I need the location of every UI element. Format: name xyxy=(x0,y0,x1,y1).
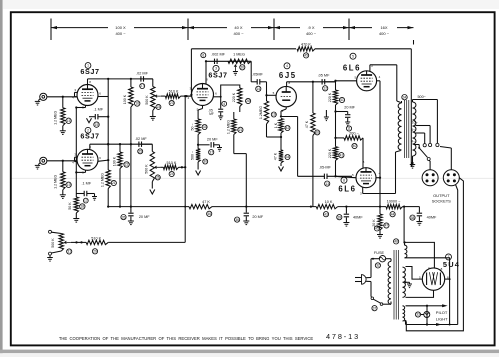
svg-text:THE COOPERATION OF THE MAN: THE COOPERATION OF THE MANUFACTURER OF T… xyxy=(59,336,314,341)
gain dimension lines 100X/40X/.9X/16X xyxy=(51,19,414,45)
capacitor 20 MF cathode V3 xyxy=(198,137,222,154)
svg-text:500 ~: 500 ~ xyxy=(190,151,194,160)
resistor 510 K ch2 xyxy=(160,161,186,177)
svg-text:27: 27 xyxy=(140,84,144,88)
potentiometer 500 K input 3 xyxy=(47,230,72,261)
resistor 220 K grid V6 xyxy=(328,138,344,176)
svg-text:1 MEG: 1 MEG xyxy=(233,53,245,57)
svg-text:470 K: 470 K xyxy=(301,43,311,47)
svg-text:OUTPUT: OUTPUT xyxy=(433,193,450,198)
resistor 20 K bus xyxy=(372,207,389,239)
svg-text:400 ~: 400 ~ xyxy=(233,31,244,36)
svg-text:6: 6 xyxy=(202,53,204,57)
resistor 1.2 MEG V2 plate xyxy=(101,170,117,207)
svg-text:8: 8 xyxy=(89,80,91,84)
svg-text:40MF: 40MF xyxy=(427,216,437,220)
svg-text:2: 2 xyxy=(87,129,89,133)
svg-text:8~: 8~ xyxy=(411,128,415,132)
secondary taps xyxy=(410,95,439,168)
svg-text:400 ~: 400 ~ xyxy=(306,31,317,36)
svg-text:5U4: 5U4 xyxy=(443,260,460,269)
svg-text:41: 41 xyxy=(340,98,344,102)
capacitor .02 MF ch2 xyxy=(135,137,152,154)
capacitor .05 MF c1 xyxy=(252,73,266,92)
svg-text:24: 24 xyxy=(170,172,174,176)
tube V7 5U4 xyxy=(419,254,460,290)
svg-text:1.2 MEG: 1.2 MEG xyxy=(53,111,57,125)
resistor 1.2 MEG input 2 xyxy=(53,161,71,199)
input jack J2 xyxy=(35,157,77,169)
rectifier output wire xyxy=(0,0,1,1)
resistor 1.2 MEG input 1 xyxy=(53,97,71,135)
capacitor 40MF bus 1 xyxy=(337,207,364,227)
svg-text:50 K: 50 K xyxy=(68,202,72,210)
svg-text:33: 33 xyxy=(416,313,420,317)
power transformer T2 xyxy=(388,239,407,321)
svg-text:16: 16 xyxy=(315,131,319,135)
phase inverter tap xyxy=(281,117,324,177)
resistor 220 K screen V3 xyxy=(220,85,251,112)
V2 plate top wire / row2 xyxy=(90,143,153,149)
tube V5 6L6 xyxy=(343,53,381,91)
tube V2 6SJ7 xyxy=(72,127,101,174)
potentiometer 500 K ch2 xyxy=(145,144,161,194)
potentiometer 500 K ch1 xyxy=(145,79,161,120)
ground stub near 6J5 xyxy=(324,110,329,121)
capacitor 20 MF bus 2 xyxy=(235,207,264,225)
V3 cathode network xyxy=(190,106,207,176)
V6 grid wire xyxy=(336,176,357,177)
svg-text:32: 32 xyxy=(376,264,380,268)
resistor 1.2 MEG V3 area xyxy=(226,112,246,207)
V1 screen wire xyxy=(98,96,108,98)
svg-text:4: 4 xyxy=(72,96,74,100)
resistor 200 ohm xyxy=(336,131,364,167)
AC plug xyxy=(355,259,373,297)
svg-text:18: 18 xyxy=(80,205,84,209)
svg-text:3: 3 xyxy=(215,67,217,71)
V5 grid wire xyxy=(334,80,356,82)
svg-text:6L6: 6L6 xyxy=(338,184,356,193)
input jack J1 xyxy=(35,93,77,105)
capacitor .05 MF c3 xyxy=(319,166,352,187)
V1 grid wire xyxy=(75,96,78,98)
output socket 1 xyxy=(422,160,438,185)
V2 cathode wire xyxy=(75,170,85,173)
svg-text:37: 37 xyxy=(373,306,377,310)
svg-text:47 K: 47 K xyxy=(202,200,210,204)
svg-text:5: 5 xyxy=(352,173,354,177)
svg-text:11: 11 xyxy=(347,127,351,131)
svg-text:500 K: 500 K xyxy=(145,95,149,105)
svg-text:6L6: 6L6 xyxy=(343,63,361,72)
svg-text:220 K: 220 K xyxy=(328,148,332,158)
svg-text:400 ~: 400 ~ xyxy=(115,31,126,36)
bias node 20 MF xyxy=(334,105,355,139)
svg-text:21: 21 xyxy=(239,128,243,132)
svg-text:10 K: 10 K xyxy=(325,200,333,204)
V1 plate top wire / row1 xyxy=(88,78,153,85)
svg-text:5: 5 xyxy=(273,91,275,95)
pilot lamp xyxy=(415,310,448,321)
svg-text:220 K: 220 K xyxy=(328,92,332,102)
resistor 50 K label xyxy=(68,202,85,210)
svg-text:SOCKETS: SOCKETS xyxy=(432,199,451,204)
output transformer T1 xyxy=(398,95,416,159)
svg-text:8: 8 xyxy=(363,160,365,164)
socket return wires xyxy=(406,178,463,331)
svg-text:15: 15 xyxy=(67,119,71,123)
svg-text:48: 48 xyxy=(394,240,398,244)
svg-text:16~: 16~ xyxy=(412,120,418,124)
svg-text:6SJ7: 6SJ7 xyxy=(208,71,227,80)
svg-text:MF: MF xyxy=(209,112,214,116)
svg-text:8: 8 xyxy=(343,178,345,182)
capacitor .05 MF screen V3 xyxy=(208,97,226,120)
svg-text:25: 25 xyxy=(138,150,142,154)
resistor 510 K input 3 xyxy=(71,236,185,254)
V4 cathode network xyxy=(267,107,291,171)
svg-text:45: 45 xyxy=(375,227,379,231)
svg-text:23: 23 xyxy=(157,105,161,109)
V5 plate wire xyxy=(370,65,401,103)
svg-text:6: 6 xyxy=(99,91,101,95)
svg-text:200 ~: 200 ~ xyxy=(349,131,359,135)
svg-text:400 ~: 400 ~ xyxy=(379,31,390,36)
svg-text:50 ~: 50 ~ xyxy=(190,123,194,130)
svg-text:6: 6 xyxy=(215,91,217,95)
svg-text:17: 17 xyxy=(84,199,88,203)
capacitor .1 MF V1 xyxy=(87,108,109,128)
svg-text:23: 23 xyxy=(170,101,174,105)
svg-text:47: 47 xyxy=(385,224,389,228)
svg-text:4~: 4~ xyxy=(411,139,415,143)
V6 plate wire xyxy=(363,151,401,194)
svg-text:40 X: 40 X xyxy=(234,25,243,30)
resistor 47 K bus xyxy=(189,200,212,216)
svg-text:26: 26 xyxy=(156,176,160,180)
svg-text:4: 4 xyxy=(286,64,288,68)
svg-text:PILOT: PILOT xyxy=(436,310,448,315)
svg-text:1.2MEG: 1.2MEG xyxy=(259,106,263,119)
svg-text:40MF: 40MF xyxy=(353,216,363,220)
V3 grid wire xyxy=(185,94,192,98)
svg-text:19: 19 xyxy=(272,113,276,117)
svg-text:31: 31 xyxy=(67,250,71,254)
capacitor .1 MF V2 xyxy=(76,181,97,203)
svg-text:100 K: 100 K xyxy=(123,94,127,104)
svg-text:1.2 MEG: 1.2 MEG xyxy=(53,175,57,189)
svg-text:20 K: 20 K xyxy=(372,219,376,227)
svg-text:20 MF: 20 MF xyxy=(207,137,218,141)
tube V3 6SJ7 xyxy=(187,65,227,111)
svg-text:20 MF: 20 MF xyxy=(139,215,150,219)
power switch xyxy=(371,297,391,311)
HV winding to 5U4 xyxy=(405,267,434,298)
svg-text:500 K: 500 K xyxy=(51,238,55,248)
svg-text:34: 34 xyxy=(286,155,290,159)
svg-text:10000 ~: 10000 ~ xyxy=(387,200,402,204)
svg-text:21: 21 xyxy=(112,181,116,185)
svg-text:47 K: 47 K xyxy=(274,152,278,160)
svg-text:.05MF: .05MF xyxy=(252,73,263,77)
svg-text:44: 44 xyxy=(391,212,395,216)
pilot light circuit xyxy=(405,304,458,326)
svg-text:29: 29 xyxy=(93,250,97,254)
resistor 510 K ch1 xyxy=(161,89,191,105)
svg-text:.05-MF: .05-MF xyxy=(319,166,332,170)
screen column A xyxy=(107,79,109,170)
svg-text:41: 41 xyxy=(340,153,344,157)
svg-text:28: 28 xyxy=(246,99,250,103)
feedback connection to secondary xyxy=(411,163,413,167)
svg-text:.05 MF: .05 MF xyxy=(318,73,330,77)
svg-text:42: 42 xyxy=(286,126,290,130)
svg-text:34: 34 xyxy=(403,95,407,99)
fuse F1 xyxy=(372,251,391,268)
tube V1 6SJ7 xyxy=(72,63,101,110)
svg-text:12: 12 xyxy=(323,87,327,91)
V4 plate row xyxy=(287,81,336,87)
svg-text:100 K: 100 K xyxy=(112,156,116,166)
svg-text:1 K: 1 K xyxy=(274,122,278,128)
document number 478-13 xyxy=(326,332,360,341)
resistor 220 K grid V5 xyxy=(328,81,345,113)
svg-text:20: 20 xyxy=(240,66,244,70)
svg-text:19: 19 xyxy=(67,183,71,187)
tube V6 6L6 xyxy=(338,160,380,195)
resistor 47 K plate V4 xyxy=(305,82,320,207)
mixer bus vertical xyxy=(184,96,186,242)
svg-text:1.2 MEG: 1.2 MEG xyxy=(226,120,230,134)
svg-text:4: 4 xyxy=(187,96,189,100)
svg-text:478-13: 478-13 xyxy=(326,332,360,341)
svg-text:40: 40 xyxy=(353,144,357,148)
bottom credit text xyxy=(59,336,314,341)
B+ bus wire xyxy=(108,205,405,207)
svg-text:38: 38 xyxy=(411,216,415,220)
svg-text:20 MF: 20 MF xyxy=(252,215,263,219)
resistor 100 K V2 plate xyxy=(112,144,129,208)
svg-text:220 K: 220 K xyxy=(232,92,236,102)
svg-text:.02 MF: .02 MF xyxy=(135,137,147,141)
svg-text:3: 3 xyxy=(74,88,76,92)
V5 screen wire xyxy=(377,81,382,207)
svg-text:35: 35 xyxy=(122,215,126,219)
svg-text:19: 19 xyxy=(95,123,99,127)
svg-text:100 X: 100 X xyxy=(115,25,126,30)
svg-text:.02 MF: .02 MF xyxy=(136,71,148,75)
svg-text:1.2 MEG: 1.2 MEG xyxy=(101,173,105,187)
feedback line 470 K xyxy=(191,43,411,167)
svg-text:500 K: 500 K xyxy=(145,164,149,174)
svg-text:45: 45 xyxy=(304,54,308,58)
column 100K V1 to bus xyxy=(130,144,132,208)
V2 grid wire xyxy=(75,160,78,162)
capacitor 20 MF bus 1 xyxy=(121,207,150,225)
svg-text:33: 33 xyxy=(203,125,207,129)
svg-text:43: 43 xyxy=(324,212,328,216)
5V winding / B+ takeoff xyxy=(403,207,450,325)
svg-text:20 MF: 20 MF xyxy=(344,105,355,109)
capacitor 40MF bus 2 xyxy=(404,207,437,226)
svg-text:39: 39 xyxy=(337,215,341,219)
svg-text:7: 7 xyxy=(448,255,450,259)
capacitor .02 MF ch1 xyxy=(136,71,153,88)
cathode column G xyxy=(73,108,79,223)
svg-text:46: 46 xyxy=(207,212,211,216)
V2 screen wire xyxy=(98,160,108,161)
svg-text:13: 13 xyxy=(325,182,329,186)
svg-text:4: 4 xyxy=(223,102,225,106)
transformer top ground xyxy=(374,226,379,231)
output socket 2 xyxy=(440,147,459,186)
resistor 100 K V1 plate xyxy=(123,79,140,144)
svg-text:37: 37 xyxy=(209,150,213,154)
svg-text:500~: 500~ xyxy=(418,95,426,99)
screen column to bus corner xyxy=(107,205,109,207)
svg-text:30: 30 xyxy=(203,160,207,164)
svg-text:.1 MF: .1 MF xyxy=(93,108,103,112)
capacitor .05 MF c2 xyxy=(318,73,336,91)
V4 grid network xyxy=(259,82,276,137)
tube V4 6J5 xyxy=(273,63,297,113)
V6 screen wire xyxy=(376,177,380,179)
resistor 10000 ohm bus xyxy=(386,200,403,217)
svg-text:FUSE: FUSE xyxy=(374,251,385,255)
svg-text:14: 14 xyxy=(256,87,260,91)
svg-text:1: 1 xyxy=(87,64,89,68)
svg-text:.002 MF: .002 MF xyxy=(211,53,226,57)
svg-text:.9 X: .9 X xyxy=(307,25,314,30)
svg-text:16: 16 xyxy=(135,102,139,106)
resistor 1 MEG plate V3 xyxy=(228,53,251,76)
V3 plate circuit row xyxy=(205,60,251,83)
wire plate to coupling cap xyxy=(251,61,257,82)
svg-text:.1 MF: .1 MF xyxy=(81,181,91,185)
svg-text:3: 3 xyxy=(360,192,362,196)
svg-text:LIGHT: LIGHT xyxy=(436,316,448,321)
svg-text:5: 5 xyxy=(352,54,354,58)
svg-text:47 K: 47 K xyxy=(305,120,309,128)
capacitor .002 MF xyxy=(201,53,226,64)
resistor 10 K bus xyxy=(316,200,338,217)
V1 cathode wire xyxy=(75,106,85,109)
svg-text:36: 36 xyxy=(235,218,239,222)
svg-text:6: 6 xyxy=(99,156,101,160)
svg-text:4: 4 xyxy=(379,75,381,79)
svg-text:16X: 16X xyxy=(380,25,387,30)
svg-text:22: 22 xyxy=(125,163,129,167)
output sockets label xyxy=(432,193,451,203)
svg-text:6J5: 6J5 xyxy=(279,71,297,80)
